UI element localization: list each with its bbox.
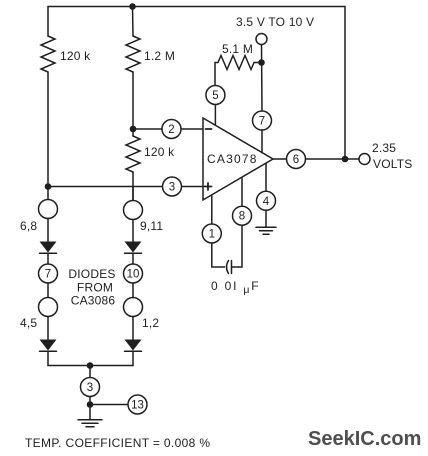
svg-text:120 k: 120 k xyxy=(144,145,175,159)
pin 3 circle (CA3086 substrate) xyxy=(81,378,100,397)
ground under pin 4 xyxy=(256,210,276,234)
wire xyxy=(47,351,49,365)
wire: right chain from 120k bottom down xyxy=(132,187,134,201)
watermark: SeekIC.com xyxy=(308,428,421,450)
svg-text:7: 7 xyxy=(259,116,265,128)
svg-text:0 0I μF: 0 0I μF xyxy=(211,279,260,296)
resistor R1 120 k (left branch) xyxy=(41,7,55,187)
resistor R3 120 k (middle) xyxy=(126,129,140,210)
svg-text:9,11: 9,11 xyxy=(140,219,163,233)
wire down to pin 3 circle xyxy=(89,366,91,378)
label: 4,5 xyxy=(20,316,37,330)
svg-text:VOLTS: VOLTS xyxy=(373,157,412,171)
svg-text:2: 2 xyxy=(168,124,174,136)
diode D3 (CA3086) xyxy=(125,242,142,254)
resistor R4 5.1 M feedback xyxy=(215,56,262,86)
label: 1.2 M (R2 value) xyxy=(144,49,175,63)
label: 120 k (R1 value) xyxy=(60,49,91,63)
svg-text:1.2 M: 1.2 M xyxy=(144,49,175,63)
svg-text:5: 5 xyxy=(212,90,218,102)
svg-text:10: 10 xyxy=(127,269,140,281)
wire: pin 6 to output terminal xyxy=(306,158,360,160)
wire: pin 2 to op-amp inverting input xyxy=(133,128,203,130)
svg-text:6,8: 6,8 xyxy=(20,219,37,233)
terminal circle pins 4,5 (CA3086) xyxy=(39,298,58,317)
node: output junction dot xyxy=(342,156,349,163)
pin 13 circle xyxy=(128,395,147,414)
wire xyxy=(132,220,134,242)
op-amp U1 CA3078 triangle xyxy=(203,118,273,200)
wire: right vertical from top rail to output node xyxy=(344,7,346,160)
supply terminal 3.5V to 10V xyxy=(256,34,267,45)
diode D4 (CA3086) xyxy=(125,340,142,352)
wire: pin 5 into op-amp top xyxy=(214,105,216,125)
terminal circle pins 9,11 (CA3086) xyxy=(124,201,143,220)
resistor R2 1.2 M xyxy=(126,7,140,130)
svg-text:2.35: 2.35 xyxy=(372,141,396,155)
svg-text:4,5: 4,5 xyxy=(20,316,37,330)
pin 3 circle xyxy=(163,177,182,196)
svg-text:3: 3 xyxy=(169,182,175,194)
label: 120 k (R3 value) xyxy=(144,145,175,159)
label: TEMP. COEFFICIENT = 0.008 % xyxy=(25,436,210,450)
svg-text:TEMP. COEFFICIENT = 0.008 %: TEMP. COEFFICIENT = 0.008 % xyxy=(25,436,210,450)
node: junction dot above ground xyxy=(87,401,94,408)
wire: pin 7 into op-amp xyxy=(261,130,263,153)
wire xyxy=(132,283,134,298)
svg-text:1: 1 xyxy=(209,229,215,241)
svg-text:120 k: 120 k xyxy=(60,49,91,63)
node: junction dot at top of 1.2M branch xyxy=(129,3,136,10)
terminal circle pins 1,2 (CA3086) xyxy=(124,298,143,317)
node: junction dot at left pin3 tap xyxy=(45,183,52,190)
label: 0.01 uF (C1 value) xyxy=(211,279,260,296)
wire xyxy=(132,317,134,340)
wire xyxy=(47,283,49,298)
node: junction dot pin2 tap xyxy=(130,126,137,133)
wire xyxy=(47,253,49,264)
terminal circle pins 6,8 (CA3086) xyxy=(39,200,58,219)
wire: pin 8 from op-amp bottom xyxy=(241,178,243,207)
pin 8 circle xyxy=(233,206,252,225)
svg-text:FROM: FROM xyxy=(77,281,113,295)
svg-text:CA3078: CA3078 xyxy=(207,152,258,166)
pin 6 circle xyxy=(287,150,306,169)
wire: bottom joining chains xyxy=(48,365,133,367)
wire: pin 3 to op-amp non-inverting input xyxy=(48,186,203,188)
svg-text:8: 8 xyxy=(239,211,245,223)
label: DIODES FROM CA3086 xyxy=(68,267,115,308)
wire xyxy=(47,219,49,242)
wire: pin 4 from op-amp bottom xyxy=(265,164,267,192)
svg-text:5.1 M: 5.1 M xyxy=(222,42,253,56)
pin 7 circle (CA3086) xyxy=(39,264,58,283)
pin 2 circle xyxy=(162,120,181,139)
node: junction dot supply/5.1M xyxy=(258,59,265,66)
ground at bottom xyxy=(78,405,102,427)
capacitor C1 0.01 uF between pin 1 and pin 8 xyxy=(212,226,242,274)
svg-text:CA3086: CA3086 xyxy=(71,294,116,308)
output terminal circle xyxy=(359,154,370,165)
svg-text:1,2: 1,2 xyxy=(142,316,159,330)
wire xyxy=(132,351,134,365)
wire: supply down to pin 7 xyxy=(261,45,264,112)
pin 10 circle (CA3086) xyxy=(124,264,143,283)
svg-text:13: 13 xyxy=(131,400,144,412)
pin 7 circle xyxy=(253,111,272,130)
svg-text:3.5 V TO 10 V: 3.5 V TO 10 V xyxy=(236,15,314,29)
pin 5 circle xyxy=(206,86,225,105)
svg-text:3: 3 xyxy=(87,382,93,394)
svg-text:7: 7 xyxy=(45,269,51,281)
svg-text:DIODES: DIODES xyxy=(68,267,115,281)
label: 5.1 M (R4 value) xyxy=(222,42,253,56)
label: 1,2 xyxy=(142,316,159,330)
wire: left chain from pin3 node down xyxy=(47,187,49,200)
svg-text:6: 6 xyxy=(293,154,299,166)
pin 1 circle xyxy=(202,224,221,243)
diode D1 (CA3086) xyxy=(40,242,57,254)
diode D2 (CA3086) xyxy=(40,340,57,352)
label: 3.5 V TO 10 V xyxy=(236,15,314,29)
wire to pin 13 xyxy=(90,404,128,406)
label: 2.35 VOLTS xyxy=(372,141,412,171)
wire xyxy=(132,253,134,264)
label: 9,11 xyxy=(140,219,163,233)
pin 4 circle xyxy=(257,191,276,210)
node: bottom junction dot xyxy=(87,362,94,369)
wire xyxy=(47,317,49,340)
svg-text:4: 4 xyxy=(263,196,270,208)
wire: pin 1 from op-amp bottom xyxy=(211,196,213,224)
label: 6,8 xyxy=(20,219,37,233)
wire xyxy=(89,397,91,405)
wire: op-amp output to pin 6 xyxy=(273,158,287,160)
wire: top rail horizontal xyxy=(48,6,345,8)
svg-text:SeekIC.com: SeekIC.com xyxy=(308,428,421,450)
